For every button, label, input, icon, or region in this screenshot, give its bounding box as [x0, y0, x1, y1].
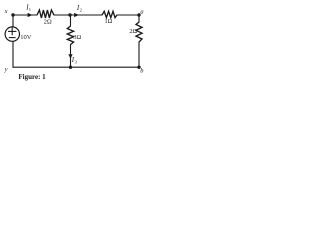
svg-text:2Ω: 2Ω — [129, 28, 137, 35]
svg-text:3Ω: 3Ω — [73, 34, 81, 41]
svg-text:Figure: 1: Figure: 1 — [18, 73, 46, 81]
svg-text:y: y — [4, 66, 8, 73]
svg-text:2: 2 — [80, 8, 82, 13]
svg-text:a: a — [140, 9, 143, 16]
svg-text:x: x — [4, 8, 8, 15]
svg-text:1: 1 — [29, 7, 31, 12]
svg-text:2Ω: 2Ω — [44, 19, 52, 26]
svg-text:10V: 10V — [20, 34, 32, 41]
svg-text:1Ω: 1Ω — [105, 18, 113, 25]
